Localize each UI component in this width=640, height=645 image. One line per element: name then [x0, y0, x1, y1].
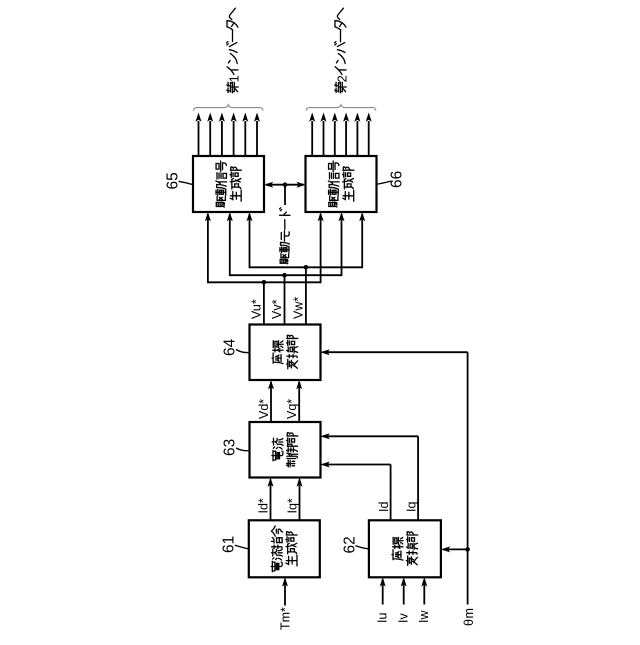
svg-text:2: 2 — [335, 75, 350, 82]
svg-text:64: 64 — [221, 338, 238, 356]
svg-text:Vd*: Vd* — [257, 399, 271, 419]
svg-text:61: 61 — [221, 536, 238, 553]
svg-text:Iv: Iv — [397, 613, 411, 623]
svg-text:Id*: Id* — [256, 498, 270, 513]
svg-text:Iq: Iq — [405, 502, 419, 512]
svg-text:Iq*: Iq* — [285, 498, 299, 513]
svg-text:Vu*: Vu* — [249, 299, 263, 319]
svg-text:1: 1 — [227, 75, 242, 82]
svg-text:Vq*: Vq* — [285, 399, 299, 419]
svg-text:Id: Id — [377, 502, 391, 512]
svg-text:Iw: Iw — [417, 610, 431, 623]
svg-text:θm: θm — [462, 608, 476, 626]
svg-text:63: 63 — [221, 439, 238, 456]
svg-text:Vv*: Vv* — [270, 299, 284, 319]
svg-text:Iu: Iu — [376, 613, 390, 623]
svg-text:62: 62 — [341, 536, 358, 553]
svg-text:66: 66 — [389, 171, 406, 188]
svg-text:Tm*: Tm* — [278, 607, 292, 630]
svg-text:Vw*: Vw* — [291, 297, 305, 319]
